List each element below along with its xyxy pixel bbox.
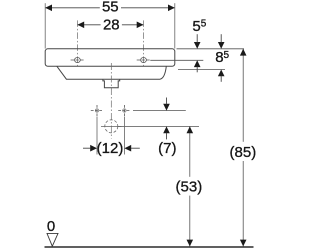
svg-text:28: 28 (103, 17, 120, 34)
tap hole right (137, 58, 151, 63)
drain level reference line (118, 125, 199, 127)
washbasin apron outline (57, 66, 166, 79)
fixation holes reference line (133, 110, 186, 112)
svg-text:55: 55 (102, 0, 119, 15)
fixation hole extension line left (96, 117, 98, 155)
dimension (53) arrowheads (187, 126, 194, 246)
svg-text:(7): (7) (158, 140, 176, 157)
dimension (85) arrowheads (240, 49, 247, 247)
datum triangle (47, 233, 58, 246)
dimension 28 line (77, 24, 143, 26)
dimension (7) arrows (163, 104, 170, 133)
dimension (12) arrowheads (90, 145, 131, 152)
dimension 8/5 arrows (218, 42, 225, 76)
fixation hole left (wall view) (91, 105, 103, 116)
drain connector box (103, 79, 120, 88)
dimension (85) vertical line (242, 49, 244, 247)
fixation hole extension line right (123, 117, 125, 155)
rim shoulder reference line (178, 69, 225, 71)
dimension 55 line (45, 7, 175, 9)
dimension 5/5 arrows (194, 42, 201, 67)
tap hole left (71, 58, 85, 63)
svg-text:(85): (85) (230, 144, 257, 161)
fixation hole right (wall view) (118, 105, 130, 116)
dimension 55 extension lines (45, 3, 175, 48)
tap level reference line (150, 59, 203, 61)
dimension 28 arrowheads (77, 22, 143, 29)
washbasin rim (front view) (45, 49, 175, 67)
drain circle (wall view) (105, 120, 118, 133)
tap centerline left (76, 20, 78, 66)
rim top reference line extended right (177, 48, 245, 50)
svg-text:0: 0 (47, 218, 55, 235)
drain centerline horizontal (101, 125, 121, 127)
drain centerline vertical (110, 63, 112, 139)
dimension 55 arrowheads (45, 5, 175, 12)
dimension (53) vertical line (189, 126, 191, 246)
tap centerline right (143, 20, 145, 66)
ground line (45, 246, 254, 248)
svg-text:(12): (12) (97, 140, 124, 157)
svg-text:(53): (53) (176, 179, 203, 196)
